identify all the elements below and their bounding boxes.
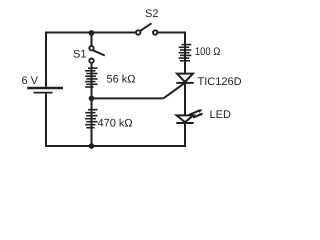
svg-text:100 Ω: 100 Ω: [195, 46, 220, 58]
svg-text:56 kΩ: 56 kΩ: [107, 74, 136, 86]
svg-text:6 V: 6 V: [22, 75, 39, 87]
svg-text:S2: S2: [145, 8, 158, 20]
svg-text:470 kΩ: 470 kΩ: [98, 117, 133, 129]
svg-text:TIC126D: TIC126D: [198, 76, 242, 88]
svg-text:S1: S1: [73, 49, 86, 61]
svg-text:LED: LED: [210, 109, 231, 121]
